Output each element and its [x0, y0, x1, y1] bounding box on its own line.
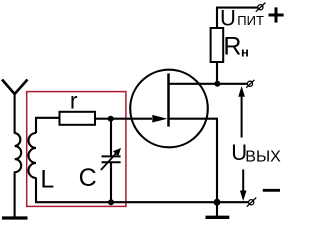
wire node down to capacitor	[110, 119, 112, 156]
transistor Q1 collector line	[169, 83, 218, 85]
svg-text:r: r	[70, 88, 78, 114]
minus sign	[263, 189, 280, 192]
resistor Rn	[211, 28, 224, 62]
plus sign	[269, 14, 284, 17]
svg-text:ВЫХ: ВЫХ	[245, 148, 281, 165]
arrow Uvyh up	[241, 96, 243, 138]
wire ground stub	[216, 202, 218, 216]
node collector junction	[214, 81, 220, 87]
node base junction	[108, 116, 114, 122]
wire Rn bottom to collector node	[216, 62, 218, 84]
inductor L	[29, 133, 36, 178]
wire coil to ground	[14, 172, 16, 219]
svg-text:ПИТ: ПИТ	[237, 13, 264, 28]
node emitter/ground junction	[214, 199, 221, 206]
wire emitter to ground rail	[170, 119, 218, 203]
terminal output plus	[247, 81, 252, 86]
wire bottom rail	[35, 201, 249, 203]
svg-text:U: U	[220, 6, 236, 31]
red highlight box around tank circuit	[27, 92, 126, 207]
inductor antenna coupling coil	[15, 133, 22, 172]
antenna WA1	[2, 80, 28, 95]
wire tank top-left corner	[36, 118, 60, 133]
ground center	[206, 216, 230, 219]
transistor Q1 base bar	[167, 73, 170, 126]
ground left	[2, 216, 28, 219]
transistor Q1 emitter arrow	[152, 115, 167, 123]
terminal output minus	[249, 200, 254, 205]
wire antenna down lead	[14, 93, 16, 134]
transistor Q1 circle	[130, 70, 208, 148]
node C bottom junction	[108, 199, 114, 205]
capacitor C variable arrow	[101, 152, 117, 170]
wire r to base node	[95, 118, 152, 120]
svg-text:C: C	[79, 164, 97, 192]
svg-text:L: L	[40, 166, 54, 194]
terminal supply	[258, 5, 263, 10]
svg-text:н: н	[241, 45, 249, 60]
wire capacitor to bottom rail	[110, 162, 112, 203]
wire collector node to output terminal	[217, 83, 247, 85]
wire Rn top to supply rail	[217, 8, 258, 28]
capacitor C (variable) plates	[102, 155, 121, 157]
wire L bottom to rail	[35, 178, 37, 204]
svg-text:R: R	[223, 32, 241, 60]
arrow Uvyh down	[242, 170, 244, 192]
resistor r	[60, 112, 96, 125]
